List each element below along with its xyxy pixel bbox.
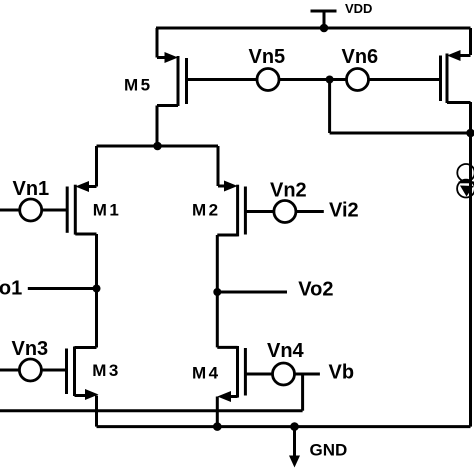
wire Vn6 to M6 gate <box>369 78 441 81</box>
wire M5 gate to Vn5 <box>187 78 258 81</box>
svg-text:Vn2: Vn2 <box>270 180 307 202</box>
transistor M1 <box>67 146 96 235</box>
wire junction down to M6 source rail <box>330 80 471 134</box>
node GND tap dot <box>290 422 299 431</box>
svg-text:Vn4: Vn4 <box>267 340 305 362</box>
wire Vn4 to Vb <box>295 373 320 376</box>
voltage source Vn4 <box>273 363 295 385</box>
wire Vn3 to M3 gate <box>0 369 67 372</box>
transistor M5 <box>157 28 187 146</box>
wire M1 source down to M3 drain <box>95 234 98 348</box>
node Vn5/Vn6 junction dot <box>326 76 334 84</box>
node VDD junction dot <box>320 24 329 33</box>
voltage source Vn1 <box>20 199 42 221</box>
wire M4 gate to Vn4 <box>245 373 272 376</box>
svg-text:Vi2: Vi2 <box>329 200 359 222</box>
transistor M4 <box>217 346 245 427</box>
wire Vn5 to Vn6 <box>279 78 347 81</box>
voltage source Vn6 <box>347 69 369 91</box>
svg-text:Vo2: Vo2 <box>298 279 333 301</box>
node mid bus dot <box>153 142 162 151</box>
svg-text:Vn1: Vn1 <box>13 178 50 200</box>
current source I1 (two circles with arrow) <box>457 164 474 198</box>
voltage source Vn3 <box>19 359 41 381</box>
svg-text:Vn3: Vn3 <box>12 338 49 360</box>
wire top VDD bus <box>156 27 471 30</box>
wire M2 source down to M4 drain <box>216 235 219 347</box>
svg-text:M5: M5 <box>124 76 153 95</box>
node Vo1 dot <box>93 285 101 293</box>
wire Vo2 tap <box>217 291 287 294</box>
voltage source Vn5 <box>257 69 279 91</box>
svg-text:GND: GND <box>310 441 348 460</box>
svg-text:Vo1: Vo1 <box>0 278 22 300</box>
svg-text:VDD: VDD <box>345 1 372 16</box>
svg-text:Vb: Vb <box>329 362 355 384</box>
ground symbol GND arrow <box>289 427 300 468</box>
wire M2 gate to Vn2 <box>245 210 274 213</box>
svg-text:M1: M1 <box>93 201 122 220</box>
wire Vb rail down and left <box>0 374 303 411</box>
wire Vn1 to M1 gate <box>0 209 67 212</box>
wire mid bus M1/M2 drains <box>97 145 219 148</box>
node M4 source dot <box>213 422 222 431</box>
svg-text:M2: M2 <box>192 201 221 220</box>
transistor M2 <box>217 146 245 236</box>
wire Vo1 tap <box>28 287 97 290</box>
wire Vn2 to Vi2 <box>296 210 324 213</box>
transistor M3 <box>67 347 99 427</box>
VDD supply symbol <box>311 11 337 28</box>
node Vo2 dot <box>213 288 221 296</box>
svg-text:M3: M3 <box>92 361 121 380</box>
svg-text:M4: M4 <box>192 364 221 383</box>
svg-text:Vn5: Vn5 <box>249 46 286 68</box>
wire right rail down <box>469 102 472 427</box>
node dot at right rail <box>466 129 474 138</box>
wire bottom ground bus <box>97 425 471 428</box>
voltage source Vn2 <box>274 201 296 223</box>
svg-text:Vn6: Vn6 <box>342 46 379 68</box>
transistor M6 <box>441 28 471 103</box>
